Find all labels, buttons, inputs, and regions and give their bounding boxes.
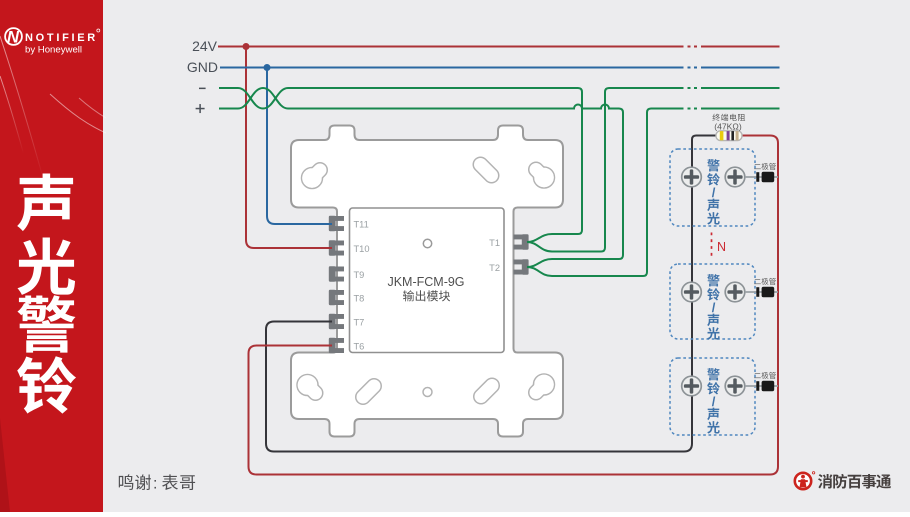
junction GND — [264, 64, 271, 71]
wire T2 return to bell loop — [527, 109, 780, 277]
svg-text:GND: GND — [187, 59, 218, 75]
svg-text:/: / — [712, 300, 716, 315]
module pin labels T11..T6, T1,T2 — [354, 220, 501, 352]
svg-text:T9: T9 — [354, 270, 365, 280]
bracket keyholes and slots — [297, 165, 555, 398]
svg-text:T10: T10 — [354, 244, 370, 254]
svg-text:(47KΩ): (47KΩ) — [714, 122, 742, 132]
wire signal plus (green, twisted pair) to T2 — [219, 88, 623, 267]
wire GND bus (blue) — [220, 67, 780, 69]
svg-text:T7: T7 — [354, 318, 365, 328]
bell B1 box 警铃/声光 — [670, 149, 755, 226]
terminal screw B3.2 — [725, 376, 745, 396]
terminal plugs T1,T2 (right) — [514, 234, 529, 249]
wire 24V bus (red) — [218, 46, 780, 48]
bell B3 box 警铃/声光 — [670, 358, 755, 435]
svg-text:T6: T6 — [354, 342, 365, 352]
diode D3 二极管 — [745, 372, 778, 391]
credit text 鸣谢:表哥 — [119, 474, 195, 492]
svg-text:N: N — [7, 29, 20, 47]
terminal screw B3.1 — [682, 376, 702, 396]
svg-text:JKM-FCM-9G: JKM-FCM-9G — [387, 275, 464, 289]
svg-text:T8: T8 — [354, 294, 365, 304]
net labels 24V GND - + — [187, 38, 218, 75]
svg-text:/: / — [712, 185, 716, 200]
logo 消防百事通 — [795, 472, 891, 490]
svg-text:T2: T2 — [489, 263, 500, 273]
terminal screw B2.2 — [725, 282, 745, 302]
terminal screw B2.1 — [682, 282, 702, 302]
label 终端电阻 (47KΩ) — [712, 114, 745, 132]
terminal screw B1.2 — [725, 167, 745, 187]
resistor R1 47K terminal resistor — [716, 131, 742, 141]
svg-text:/: / — [712, 394, 716, 409]
diode D1 二极管 — [745, 163, 778, 182]
wire T1 return to bell loop — [527, 88, 780, 252]
logo NOTIFIER by Honeywell — [5, 28, 100, 55]
svg-text:N: N — [717, 240, 726, 254]
wire T6 loop positive (red) through diodes to resistor — [249, 136, 779, 475]
wire GND to T11 — [267, 68, 332, 225]
op module U1 JKM-FCM-9G body — [350, 208, 505, 353]
svg-text:by Honeywell: by Honeywell — [25, 45, 82, 56]
diode D2 二极管 — [745, 278, 778, 297]
label 警铃/声光 B1 — [707, 159, 720, 224]
terminal plugs T11..T6 (left) — [329, 216, 344, 231]
banner title 声光警铃 — [17, 174, 76, 414]
node N: repeated devices indicator — [712, 233, 727, 259]
wire signal minus (green, twisted pair) to T1 — [219, 88, 582, 242]
svg-text:24V: 24V — [192, 38, 218, 54]
wire 24V to T10 — [246, 47, 332, 249]
label 警铃/声光 B2 — [707, 274, 720, 339]
svg-text:NOTIFIER: NOTIFIER — [25, 32, 98, 44]
module mounting bracket (backplate) — [291, 126, 563, 437]
wire T7 loop negative (black) through bells to resistor — [266, 136, 716, 452]
svg-text:T11: T11 — [354, 220, 369, 230]
svg-text::: : — [153, 476, 157, 493]
bell B2 box 警铃/声光 — [670, 264, 755, 339]
junction 24V — [243, 43, 250, 50]
banner: NOTIFIER red sidebar — [0, 0, 1, 1]
svg-text:T1: T1 — [489, 238, 500, 248]
label 警铃/声光 B3 — [707, 368, 720, 433]
terminal screw B1.1 — [682, 167, 702, 187]
